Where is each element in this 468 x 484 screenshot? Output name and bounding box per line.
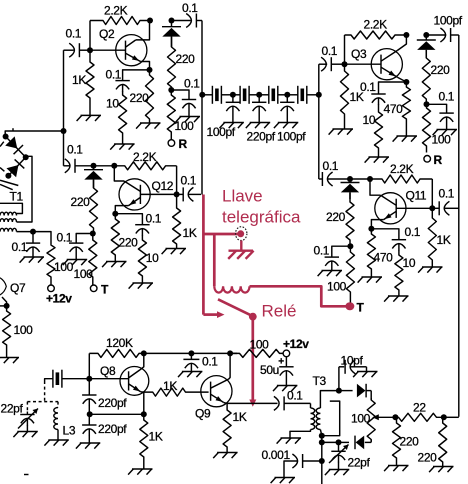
transistor Q9: [201, 376, 232, 407]
ground: [333, 128, 354, 130]
resistor 1K Q9 emitter: [223, 403, 231, 452]
ground: [362, 276, 383, 278]
resistor 10 emitter: [119, 91, 127, 144]
transistor Q8: [120, 367, 149, 396]
ground: [133, 282, 154, 284]
node Q8 base: [86, 376, 92, 382]
wire secondary top: [320, 391, 339, 408]
svg-text:100pf: 100pf: [434, 14, 463, 28]
diode D2: [425, 35, 427, 40]
svg-text:1K: 1K: [72, 73, 86, 87]
ground: [106, 261, 127, 263]
resistor 220 left leg: [393, 417, 401, 465]
node divider mid: [87, 411, 93, 417]
trimmer 22pf output: [338, 442, 340, 451]
node Q2 base: [87, 47, 93, 53]
svg-text:10pf: 10pf: [341, 354, 364, 368]
node A1: [61, 128, 67, 134]
ground: [67, 259, 88, 261]
svg-text:100: 100: [14, 323, 34, 337]
diode D1: [171, 21, 173, 27]
resistor 1K Q12 load: [173, 194, 181, 248]
svg-text:1K: 1K: [149, 430, 163, 444]
resistor 220 below D4: [346, 192, 354, 246]
svg-text:Q2: Q2: [99, 27, 115, 41]
svg-text:100: 100: [327, 280, 347, 294]
wire down to Q11 base node: [431, 179, 433, 208]
svg-text:Llave: Llave: [222, 187, 263, 206]
svg-text:0.1: 0.1: [67, 143, 83, 157]
svg-text:0.1: 0.1: [106, 68, 122, 82]
ground: [422, 266, 443, 268]
svg-text:Q8: Q8: [100, 364, 116, 378]
svg-text:0.1: 0.1: [66, 27, 82, 41]
svg-text:2.2K: 2.2K: [133, 150, 157, 164]
node Q11 emitter: [368, 226, 374, 232]
wire input line top-left: [5, 131, 63, 137]
wire Q3 emitter bypass: [379, 82, 407, 94]
node Q11 base: [429, 205, 435, 211]
node Q2 collector: [147, 18, 153, 24]
svg-text:1K: 1K: [437, 233, 451, 247]
svg-text:0.1: 0.1: [57, 231, 73, 245]
svg-text:0.1: 0.1: [322, 44, 338, 58]
node T-branch left: [90, 231, 96, 237]
ground: [357, 371, 378, 373]
resistor 1K interstage: [144, 388, 209, 396]
stray mark: [24, 474, 29, 476]
capacitor 0.1 to ground: [325, 256, 339, 258]
svg-text:0.1: 0.1: [12, 240, 28, 254]
svg-text:120K: 120K: [106, 336, 133, 350]
svg-text:1K: 1K: [163, 379, 177, 393]
resistor 220 below D1: [168, 37, 176, 90]
svg-text:100: 100: [250, 338, 270, 352]
svg-text:100: 100: [74, 267, 94, 281]
svg-text:220: 220: [400, 435, 420, 449]
svg-text:R: R: [434, 153, 443, 167]
capacitor 0.1 bypass: [392, 239, 406, 241]
ground: [275, 477, 296, 479]
svg-text:220pf: 220pf: [98, 422, 127, 436]
resistor 2.2K Q2 collector: [90, 17, 150, 25]
capacitor 100pf output: [426, 34, 446, 36]
mixer diode a: [6, 137, 26, 158]
node red T terminal: [345, 302, 353, 310]
wire emitter to bypass: [123, 70, 150, 81]
crystal X3: [259, 94, 269, 96]
resistor 100 supply: [230, 349, 283, 357]
wire Q11 collector line: [350, 178, 370, 180]
node Q12 base: [174, 191, 180, 197]
node Q3 emitter: [403, 79, 409, 85]
svg-text:0.1: 0.1: [360, 80, 376, 94]
node Q12 input: [91, 163, 97, 169]
svg-text:100: 100: [432, 133, 452, 147]
resistor 470 Q11 emitter: [367, 229, 375, 277]
terminal T right (red): [347, 302, 355, 310]
wire diode to pot: [370, 391, 372, 400]
ground: [132, 468, 153, 470]
node Q2 emitter: [147, 67, 153, 73]
wire red to relay coil: [213, 234, 216, 286]
transistor Q12: [119, 179, 150, 210]
node R-branch left: [168, 87, 174, 93]
capacitor 0.1 Q11 output: [432, 207, 439, 209]
terminal +12v: [283, 350, 290, 357]
node pot wiper: [392, 414, 398, 420]
relay switch arm: [218, 299, 252, 316]
ground: [80, 442, 101, 444]
terminal R left: [168, 140, 175, 147]
crystal X2: [233, 94, 240, 96]
wire Q12 collector line: [94, 165, 115, 167]
ground: [140, 122, 161, 124]
ground: [437, 129, 458, 131]
resistor 100 to R terminal: [423, 104, 431, 152]
terminal T left: [90, 285, 97, 292]
svg-text:0.1: 0.1: [405, 225, 421, 239]
ground: [277, 385, 298, 387]
node filter output: [316, 92, 322, 98]
wire cap to mixer line: [63, 50, 65, 131]
ground: [166, 248, 187, 250]
ground: [250, 122, 271, 124]
transistor Q2: [116, 35, 147, 66]
resistor 120K: [89, 349, 144, 357]
wire right edge bus: [458, 35, 460, 417]
svg-text:+: +: [278, 357, 284, 368]
node R-branch right: [424, 101, 430, 107]
diode D3: [93, 166, 95, 170]
ground: [433, 466, 454, 468]
svg-text:Q9: Q9: [195, 407, 211, 421]
node T-branch right: [347, 243, 353, 249]
resistor 1K Q3 base: [341, 64, 349, 129]
capacitor C1 0.1 input: [64, 49, 74, 51]
capacitor 0.1 Q3 input: [319, 63, 327, 65]
wire to bypass: [427, 104, 447, 113]
svg-text:0.1: 0.1: [184, 77, 200, 91]
node diode D2 top: [423, 32, 429, 38]
ground: [24, 256, 45, 258]
capacitor 0.1 PA coupling: [227, 402, 277, 404]
dashed link to tank: [44, 381, 46, 402]
ground: [17, 431, 38, 433]
svg-text:220pf: 220pf: [247, 130, 276, 144]
wire 120K feedback down: [88, 353, 90, 378]
capacitor 0.1 to ground: [439, 112, 453, 114]
svg-text:220: 220: [418, 451, 438, 465]
diode D4: [349, 179, 351, 183]
resistor 1K Q2 base: [86, 50, 94, 115]
resistor 2.2K Q12: [114, 162, 176, 170]
node Q9 collector: [227, 350, 233, 356]
node filter 1: [230, 92, 236, 98]
node Q3 collector: [403, 32, 409, 38]
wire red key branch: [204, 233, 235, 236]
svg-text:220pf: 220pf: [98, 396, 127, 410]
svg-text:Q3: Q3: [351, 47, 367, 61]
wire diode to pot bottom: [370, 440, 372, 442]
wire secondary bottom: [320, 430, 321, 436]
svg-text:100: 100: [54, 260, 74, 274]
svg-text:22pf: 22pf: [348, 456, 371, 470]
ground: [0, 357, 19, 359]
svg-text:50u: 50u: [260, 363, 279, 377]
capacitor 0.1 T1 bypass: [32, 232, 34, 244]
svg-text:22pf: 22pf: [1, 402, 24, 416]
svg-text:L3: L3: [63, 424, 76, 438]
wire detector lower branch: [322, 441, 339, 443]
relay coil: [214, 286, 249, 292]
wire mixer to Q12 cap: [63, 131, 65, 166]
wire red coil to T terminal: [250, 286, 349, 306]
capacitor 220pf lower: [88, 406, 90, 426]
capacitor 0.1 emitter bypass: [115, 80, 129, 82]
node T3 out 2: [319, 439, 325, 445]
capacitor 0.1 bypass: [371, 93, 385, 95]
capacitor 0.1 top coupling: [172, 20, 191, 22]
resistor 10: [375, 105, 383, 158]
svg-text:+12v: +12v: [46, 291, 72, 305]
wire to T3 primary: [310, 403, 312, 408]
resistor 220 below D3: [90, 180, 98, 234]
capacitor 0.1 Q12 input: [64, 165, 71, 167]
capacitor 0.1 Q12 output: [177, 193, 184, 195]
svg-text:2.2K: 2.2K: [364, 18, 388, 32]
svg-text:0.1: 0.1: [181, 174, 197, 188]
node filter 2: [256, 92, 262, 98]
wire stub tick: [12, 128, 14, 131]
resistor 220 Q2 emitter: [146, 70, 154, 123]
diode D6: [339, 441, 350, 443]
svg-text:1K: 1K: [233, 410, 247, 424]
wire output bus down: [321, 436, 323, 484]
node diode D1 top: [169, 18, 175, 24]
node Q7 emitter: [4, 303, 10, 309]
terminal +12v left: [48, 285, 55, 292]
ground: [48, 439, 69, 441]
wire divider to emitter: [90, 413, 144, 415]
resistor 10: [395, 250, 403, 296]
transistor Q7 (partial): [0, 278, 6, 295]
ground: [180, 116, 201, 118]
ground: [388, 465, 409, 467]
resistor 10: [138, 235, 146, 283]
svg-text:0.001: 0.001: [262, 448, 291, 462]
svg-text:1K: 1K: [183, 226, 197, 240]
resistor 22: [395, 413, 443, 421]
svg-text:R: R: [179, 137, 188, 151]
ground: [397, 135, 418, 137]
resistor 1K Q8 emitter: [140, 414, 148, 469]
wire red arrow to relay contact: [203, 313, 217, 316]
node Q11 input: [347, 176, 353, 182]
ground: [369, 156, 390, 158]
svg-text:220: 220: [176, 52, 196, 66]
resistor 100 to +12v: [47, 241, 55, 285]
transistor Q11: [375, 193, 406, 224]
svg-text:Q12: Q12: [152, 179, 174, 193]
svg-text:+12v: +12v: [283, 337, 309, 351]
wire Q3 collector supply: [344, 35, 346, 64]
node T3 out 1: [319, 433, 325, 439]
svg-text:0.1: 0.1: [202, 355, 218, 369]
capacitor 50u electrolytic: [285, 357, 287, 367]
node Q11 collector: [367, 176, 373, 182]
node trimmer 2: [336, 439, 342, 445]
transformer T3 secondary: [316, 408, 320, 430]
transformer T3 link winding: [322, 401, 340, 436]
resistor 220 right leg: [439, 417, 447, 466]
transistor Q3: [371, 49, 402, 80]
node filter 3: [284, 92, 290, 98]
svg-text:Q11: Q11: [406, 189, 427, 203]
svg-text:10: 10: [403, 256, 416, 270]
wire Q2 collector supply: [89, 21, 91, 51]
pot wiper arrow: [378, 416, 396, 418]
resistor 220 below D2: [422, 50, 430, 104]
capacitor 100pf shunt 1: [232, 95, 234, 103]
svg-text:0.1: 0.1: [323, 159, 339, 173]
svg-text:2.2K: 2.2K: [390, 162, 414, 176]
wire to bypass cap: [332, 246, 351, 257]
wire to +12v resistor: [33, 232, 51, 241]
capacitor 0.1 rail bypass: [190, 353, 192, 359]
transformer T3 primary: [311, 408, 315, 430]
ground: [81, 114, 102, 116]
ground: [114, 143, 135, 145]
wire crystal left: [45, 379, 53, 381]
svg-text:telegráfica: telegráfica: [222, 208, 301, 227]
resistor 2.2K Q11: [370, 175, 432, 183]
wire to bypass cap: [76, 234, 93, 244]
svg-text:0.1: 0.1: [314, 244, 330, 258]
ground: [388, 295, 409, 297]
svg-text:10: 10: [106, 97, 119, 111]
svg-text:2.2K: 2.2K: [104, 4, 128, 18]
crystal X1: [202, 94, 212, 96]
svg-text:220: 220: [119, 236, 139, 250]
capacitor 0.001: [303, 460, 322, 462]
svg-text:100pf: 100pf: [277, 130, 306, 144]
resistor 470 Q3 emitter: [402, 82, 410, 136]
ground: [182, 371, 203, 373]
wire primary to ground: [290, 430, 311, 439]
wire emitter to bypass: [371, 229, 399, 240]
crystal X4: [287, 94, 298, 96]
resistor 220 Q12 emitter: [111, 214, 119, 262]
svg-text:470: 470: [384, 102, 404, 116]
wire to right bus: [444, 416, 459, 418]
resistor 1K Q11 load: [428, 208, 436, 267]
terminal R right: [424, 156, 431, 163]
svg-text:220: 220: [326, 210, 346, 224]
svg-text:0.1: 0.1: [439, 187, 455, 201]
ground: [281, 437, 302, 439]
wire down to Q12 base node: [176, 166, 178, 195]
resistor 2.2K Q3 collector: [345, 31, 407, 39]
wire supply rail: [144, 352, 237, 354]
node Q3 base: [342, 61, 348, 67]
capacitor 220pf shunt 2: [258, 95, 260, 103]
svg-text:220: 220: [130, 91, 150, 105]
node crystal filter input: [199, 92, 205, 98]
ground: [278, 122, 299, 124]
svg-text:220: 220: [431, 63, 451, 77]
diode D5: [339, 390, 353, 392]
capacitor 0.1 Q11 input: [319, 178, 323, 180]
capacitor 0.1 bypass: [135, 224, 149, 226]
svg-text:100: 100: [351, 412, 371, 426]
svg-text:T1: T1: [10, 190, 24, 204]
svg-text:22: 22: [413, 401, 426, 415]
resistor 100 Q7: [3, 306, 11, 358]
wire to bypass cap: [171, 90, 189, 100]
capacitor 0.1 to ground: [69, 242, 83, 244]
node detector junction: [336, 388, 342, 394]
svg-text:T: T: [357, 301, 365, 315]
node T1 bottom: [30, 229, 36, 235]
capacitor 0.1 to ground: [182, 99, 196, 101]
wire filter to Q3 cap: [318, 64, 320, 95]
svg-text:Q7: Q7: [10, 281, 26, 295]
svg-text:0.1: 0.1: [439, 90, 455, 104]
wire filter to Q11 cap: [318, 95, 320, 179]
ground: [217, 452, 238, 454]
node Q8 emitter: [141, 411, 147, 417]
wire emitter to bypass: [115, 214, 142, 225]
node rail bypass: [188, 350, 194, 356]
svg-text:0.1: 0.1: [287, 389, 303, 403]
telegraph key symbol: [235, 233, 239, 236]
ground: [223, 122, 244, 124]
wire red key line vertical: [202, 195, 205, 315]
resistor 100 to R terminal: [167, 90, 175, 140]
resistor 100 to T terminal: [346, 246, 354, 302]
mixer partial edges: [0, 142, 4, 147]
wire vertical bus x=202: [201, 21, 203, 195]
node Q12 emitter: [112, 211, 118, 217]
svg-text:100: 100: [175, 119, 195, 133]
inductor L3: [54, 408, 58, 430]
svg-text:0.1: 0.1: [146, 212, 162, 226]
wire red relay to keyed line: [251, 317, 254, 401]
resistor 100 to T terminal: [89, 234, 97, 285]
capacitor 10pf: [338, 367, 340, 391]
crystal X5: [62, 378, 89, 380]
node Q12 collector: [111, 163, 117, 169]
node Q8 collector: [141, 350, 147, 356]
capacitor 220pf upper: [88, 379, 90, 395]
node output right: [441, 414, 447, 420]
ground: [322, 270, 343, 272]
svg-text:220: 220: [71, 195, 91, 209]
potentiometer 100: [367, 398, 375, 442]
svg-text:0.1: 0.1: [182, 1, 198, 15]
svg-text:Relé: Relé: [262, 302, 297, 321]
svg-text:T3: T3: [313, 374, 327, 388]
mixer diode b: [8, 157, 25, 176]
svg-text:10: 10: [363, 113, 376, 127]
capacitor 100pf shunt 3: [286, 95, 288, 103]
ground: [329, 469, 350, 471]
node 0.001 branch: [319, 458, 325, 464]
svg-text:10: 10: [146, 251, 159, 265]
svg-text:T: T: [101, 283, 109, 297]
svg-text:470: 470: [374, 251, 394, 265]
